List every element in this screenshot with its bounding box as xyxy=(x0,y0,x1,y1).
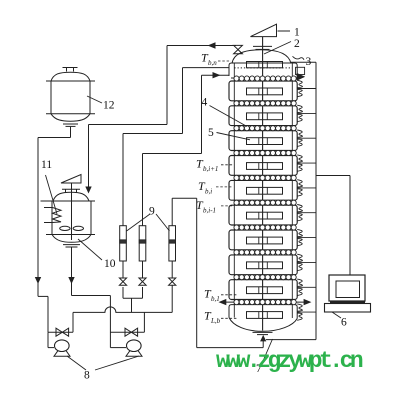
label 11 leader xyxy=(46,175,58,214)
valve V1 at pump P1 xyxy=(48,331,73,333)
valve under rotameter R1 xyxy=(119,278,126,282)
wire line B column upper takeoff to rotameter R1 xyxy=(183,67,230,69)
wire discharge header xyxy=(73,307,172,313)
motor of vessel 11 xyxy=(61,175,81,184)
wire vessel 11 outlet to pump P2 xyxy=(71,247,73,296)
arrow down on vessel 11 outlet xyxy=(68,277,74,284)
top connector to bus xyxy=(291,61,316,63)
tray 3 xyxy=(247,113,283,120)
stage nozzle bump 5a xyxy=(297,180,302,187)
stage nozzle bump 1a xyxy=(297,80,302,87)
arrow down on vessel 12 outlet xyxy=(35,277,41,284)
svg-text:1: 1 xyxy=(294,27,300,39)
svg-text:L,b: L,b xyxy=(210,317,221,325)
column can section 6 xyxy=(229,205,297,225)
pump P1 xyxy=(47,332,49,347)
column can section 5 xyxy=(229,180,297,200)
computer screen xyxy=(336,281,360,298)
stage nozzle bump 10a xyxy=(297,304,302,311)
column can section 8 xyxy=(229,255,297,275)
rotameter R1 xyxy=(120,226,127,261)
column can section 9 xyxy=(229,280,297,300)
vessel 12 bottom nozzle flange xyxy=(63,123,78,125)
label 3 leader xyxy=(293,56,305,60)
valve under rotameter R3 xyxy=(169,278,176,282)
svg-text:b,i: b,i xyxy=(205,188,212,196)
column bottom nozzle (7) xyxy=(253,331,273,333)
stage nozzle bump 7b xyxy=(297,239,302,246)
svg-text:9: 9 xyxy=(149,206,155,218)
svg-text:12: 12 xyxy=(103,100,115,112)
stage 1 right loop box xyxy=(296,67,305,74)
svg-text:6: 6 xyxy=(341,317,347,329)
column can section 3 xyxy=(229,131,297,151)
column bottom dish xyxy=(229,318,297,332)
tray 10 xyxy=(247,287,283,294)
coil chain row 2 xyxy=(234,101,296,106)
stage nozzle bump 10b xyxy=(297,313,302,320)
sensor connector 9 xyxy=(297,286,316,288)
bottom heating line through chain 10 xyxy=(224,301,306,303)
computer monitor xyxy=(329,275,365,301)
rotameter R2 xyxy=(139,226,146,261)
stage nozzle bump 4b xyxy=(297,164,302,171)
svg-text:10: 10 xyxy=(104,258,116,270)
svg-text:5: 5 xyxy=(208,127,214,139)
tray 4 xyxy=(247,138,283,145)
wire bus bottom to column base xyxy=(266,339,316,341)
label 6 leader xyxy=(332,312,341,318)
coil chain row 3 xyxy=(234,126,296,131)
computer base xyxy=(330,301,365,303)
sensor connector 7 xyxy=(297,237,316,239)
arrow right into column on line C xyxy=(213,72,221,78)
arrow out of top chain to right loop xyxy=(297,73,306,81)
wire bus to computer xyxy=(316,175,350,177)
label 2 leader xyxy=(264,42,291,55)
arrow up into column bottom xyxy=(260,335,266,342)
svg-text:3: 3 xyxy=(306,56,312,68)
svg-text:b,1: b,1 xyxy=(211,295,220,303)
arrow down into vessel 11 xyxy=(85,187,91,194)
sensor connector 8 xyxy=(297,261,316,263)
column can section 7 xyxy=(229,230,297,250)
stage nozzle bump 7a xyxy=(297,229,302,236)
svg-text:b,i+1: b,i+1 xyxy=(203,165,218,173)
svg-text:11: 11 xyxy=(41,159,52,171)
sensor connector 5 xyxy=(297,187,316,189)
motor of column (1) xyxy=(251,24,277,36)
coil chain row 8 xyxy=(234,250,296,255)
vessel 11 shaft seal xyxy=(71,183,73,192)
tray 9 xyxy=(247,262,283,269)
tray 5 xyxy=(247,163,283,170)
vessel 11 agitator xyxy=(71,192,73,240)
sensor connector 4 xyxy=(297,162,316,164)
stage nozzle bump 2b xyxy=(297,114,302,121)
column can section 1 xyxy=(229,81,297,101)
vessel 12 top nozzle xyxy=(63,67,78,69)
label 8 leaders xyxy=(67,356,86,370)
coil chain row 1 xyxy=(234,76,296,81)
svg-text:b,i-1: b,i-1 xyxy=(203,207,216,215)
sensor connector 1 xyxy=(297,88,316,90)
column bottom can xyxy=(229,305,297,319)
wire pump P1 discharge xyxy=(72,312,74,332)
bottom chain right outlet arrow xyxy=(304,299,312,305)
stage nozzle bump 8b xyxy=(297,263,302,270)
sensor connector 6 xyxy=(297,212,316,214)
wire overhead line A from column top valve to vessel 11 xyxy=(167,45,236,47)
tray 7 xyxy=(247,212,283,219)
tray 2 xyxy=(247,88,283,95)
label 10 leader xyxy=(78,239,102,260)
column shaft xyxy=(262,37,264,331)
stage nozzle bump 8a xyxy=(297,254,302,261)
arrow left on overhead line A xyxy=(208,42,216,48)
wire pump P2 discharge xyxy=(143,312,145,332)
overhead valve on dome xyxy=(234,45,243,49)
stage nozzle bump 9b xyxy=(297,288,302,295)
stage nozzle bump 6b xyxy=(297,214,302,221)
stage nozzle bump 5b xyxy=(297,189,302,196)
valve V2 at pump P2 xyxy=(110,331,144,333)
wire vessel 12 outlet to pump P1 xyxy=(70,127,72,138)
wire rotameter junction xyxy=(123,297,143,299)
label 7 leader xyxy=(263,339,273,361)
label 12 leader xyxy=(87,96,102,103)
tray 8 xyxy=(247,237,283,244)
valve under rotameter R2 xyxy=(139,278,146,282)
tray 1 (top, dotted) xyxy=(247,62,283,68)
label 9 leaders xyxy=(127,214,151,231)
bottom chain left outlet arrow xyxy=(219,299,227,305)
stage nozzle bump 6a xyxy=(297,205,302,212)
vessel 11 heating coil xyxy=(44,207,53,209)
coil chain row 6 xyxy=(234,200,296,205)
rotameter R3 xyxy=(169,226,176,261)
coil chain row 5 xyxy=(234,175,296,180)
stage nozzle bump 4a xyxy=(297,155,302,162)
vessel 11 bottom nozzle xyxy=(63,244,80,246)
column shaft seal (2) xyxy=(253,45,272,47)
vessel 12 body xyxy=(51,72,90,81)
stage nozzle bump 3a xyxy=(297,130,302,137)
vessel 11 body xyxy=(41,200,96,202)
tray 11 xyxy=(247,312,283,319)
column can section 4 xyxy=(229,156,297,176)
tray 6 xyxy=(247,187,283,194)
sensor connector 3 xyxy=(297,137,316,139)
svg-text:8: 8 xyxy=(84,370,90,382)
stage nozzle bump 3b xyxy=(297,139,302,146)
vessel 11 lid xyxy=(53,192,89,201)
svg-text:b,n: b,n xyxy=(208,59,217,67)
coil chain row 10 xyxy=(234,300,296,305)
label 5 leader xyxy=(217,133,251,140)
wire rotameter R3 riser to column-bottom feed line xyxy=(171,198,173,226)
column dome xyxy=(232,50,291,64)
coil chain row 4 xyxy=(234,150,296,155)
column top can xyxy=(229,63,297,76)
sensor connector 10 xyxy=(297,311,316,313)
stage nozzle bump 9a xyxy=(297,279,302,286)
wire line C rotameter R2 to column reflux inlet xyxy=(142,154,144,226)
svg-text:www.zgzywpt.cn: www.zgzywpt.cn xyxy=(216,348,363,374)
heating line through chain 1 xyxy=(231,77,297,79)
pump P2 xyxy=(110,347,126,349)
label 4 leader xyxy=(210,106,248,127)
svg-text:2: 2 xyxy=(294,38,300,50)
column inner walls xyxy=(233,64,235,318)
coil chain row 7 xyxy=(234,225,296,230)
sensor bus vertical xyxy=(315,62,317,339)
svg-text:4: 4 xyxy=(202,97,208,109)
column can section 2 xyxy=(229,106,297,126)
sensor connector 2 xyxy=(297,112,316,114)
stage nozzle bump 1b xyxy=(297,89,302,96)
stage nozzle bump 2a xyxy=(297,105,302,112)
coil chain row 9 xyxy=(234,275,296,280)
